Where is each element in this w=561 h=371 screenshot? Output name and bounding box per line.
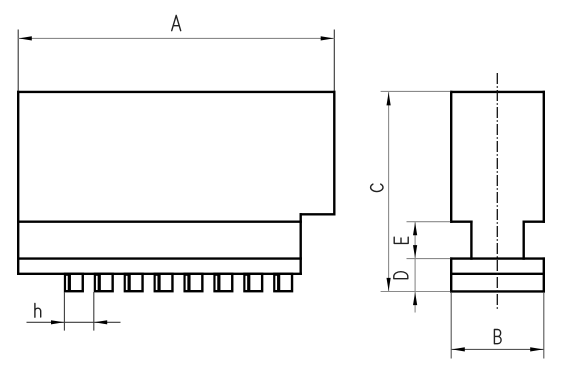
- node C arrow bottom: [387, 278, 391, 291]
- node label h: [35, 303, 41, 317]
- wire: right edge lower: [543, 257, 545, 292]
- wire: A right extension line: [333, 30, 335, 92]
- wire: E top extension line: [407, 221, 451, 223]
- node h arrow right (outside, points left): [94, 320, 107, 324]
- wire: B right extension line: [543, 293, 545, 359]
- wire: E bottom extension line: [407, 258, 451, 260]
- wire: left edge lower: [450, 257, 452, 292]
- wire: h dimension line: [27, 321, 121, 323]
- node E arrow bottom: [413, 245, 417, 258]
- wire: right groove top: [523, 220, 546, 222]
- wire: h right extension line: [93, 292, 95, 331]
- wire: left groove top: [450, 220, 473, 222]
- wire: C top extension line: [381, 90, 451, 92]
- tooth 5: [183, 273, 203, 293]
- wire: groove bottom full line: [450, 257, 545, 259]
- tooth 3: [124, 273, 144, 293]
- node h arrow left (outside, points right): [51, 320, 64, 324]
- wire: A left extension line: [17, 30, 19, 92]
- node E arrow top: [413, 222, 417, 235]
- wire: C/D bottom extension line: [381, 291, 451, 293]
- wire: step vertical edge: [300, 213, 302, 275]
- wire: top edge of body: [17, 91, 336, 93]
- node label D: [394, 272, 408, 279]
- node B arrow left: [452, 347, 465, 351]
- wire: bottom edge: [450, 290, 545, 292]
- node teeth: serrated row, 8 teeth: [64, 273, 293, 293]
- node D arrow bottom (outside, points up): [413, 292, 417, 305]
- wire: right edge of body: [333, 91, 335, 216]
- node C arrow top: [387, 92, 391, 105]
- wire: body bottom edge: [17, 220, 302, 222]
- wire: h left extension line: [63, 292, 65, 331]
- node label A: [172, 15, 181, 30]
- node label C: [371, 184, 383, 191]
- wire: B dimension line: [451, 348, 544, 350]
- wire: left groove inner vertical: [470, 221, 472, 260]
- wire: E/D dimension line: [414, 222, 416, 313]
- node B arrow right: [530, 347, 543, 351]
- wire: serration strip bottom edge: [17, 273, 302, 275]
- node centerline: [496, 73, 498, 311]
- node A arrow left: [19, 36, 32, 40]
- wire: strip line: [450, 273, 545, 275]
- wire: top edge: [450, 91, 545, 93]
- wire: B left extension line: [450, 293, 452, 359]
- tooth 7: [243, 273, 263, 293]
- node A arrow right: [321, 36, 334, 40]
- wire: left edge of body: [17, 91, 19, 275]
- wire: step horizontal at bottom-right: [300, 213, 336, 215]
- wire: right edge upper: [543, 91, 545, 223]
- tooth 8: [273, 273, 293, 293]
- wire: right groove inner vertical: [523, 221, 525, 260]
- tooth 6: [213, 273, 233, 293]
- node label E: [394, 237, 408, 243]
- tooth 2: [94, 273, 114, 293]
- node label B: [494, 330, 501, 344]
- tooth 1: [64, 273, 84, 293]
- wire: band bottom edge: [17, 257, 302, 259]
- tooth 4: [154, 273, 174, 293]
- wire: A dimension line: [18, 37, 334, 39]
- wire: left edge upper: [450, 91, 452, 223]
- wire: C dimension line: [388, 92, 390, 292]
